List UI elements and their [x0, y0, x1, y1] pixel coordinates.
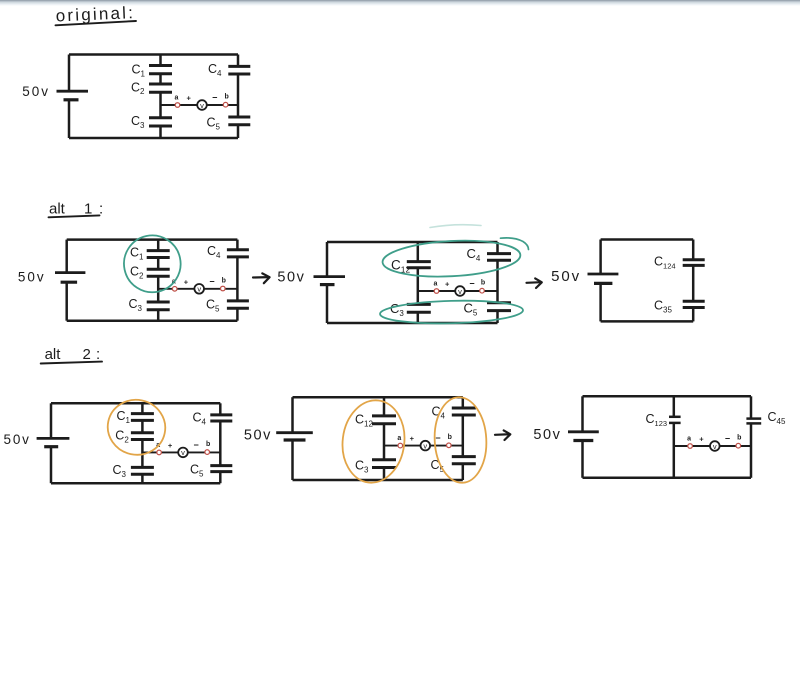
svg-text:v: v — [713, 442, 717, 451]
svg-text:b: b — [206, 441, 210, 448]
svg-text:+: + — [187, 94, 192, 103]
svg-text:+: + — [168, 441, 173, 450]
svg-text:50v: 50v — [277, 270, 305, 286]
svg-text:b: b — [448, 434, 452, 441]
svg-text:a: a — [397, 435, 401, 442]
svg-text:−: − — [209, 276, 214, 286]
svg-text:−: − — [435, 433, 440, 443]
svg-text:50v: 50v — [18, 270, 46, 285]
svg-text:b: b — [481, 280, 485, 287]
svg-text:50v: 50v — [551, 268, 581, 285]
svg-text:a: a — [687, 436, 691, 443]
svg-text:a: a — [434, 281, 438, 288]
svg-text:v: v — [197, 285, 201, 294]
svg-text:+: + — [445, 280, 450, 289]
svg-text:v: v — [423, 441, 427, 450]
svg-text:50v: 50v — [244, 428, 272, 444]
svg-text:50v: 50v — [4, 432, 31, 447]
svg-text:v: v — [200, 101, 204, 110]
svg-text:50v: 50v — [22, 84, 50, 99]
svg-text:+: + — [410, 434, 415, 443]
svg-text:+: + — [184, 277, 189, 286]
svg-text:−: − — [193, 440, 198, 450]
svg-text:b: b — [224, 94, 228, 101]
svg-text:−: − — [212, 93, 217, 103]
svg-text:a: a — [175, 95, 179, 102]
svg-text:50v: 50v — [533, 427, 561, 443]
svg-text:b: b — [737, 435, 741, 442]
svg-text:−: − — [725, 434, 730, 444]
svg-text:−: − — [469, 279, 474, 289]
svg-text:v: v — [458, 287, 462, 296]
svg-text:b: b — [222, 277, 226, 284]
svg-text:+: + — [699, 435, 704, 444]
svg-text:v: v — [181, 448, 185, 457]
